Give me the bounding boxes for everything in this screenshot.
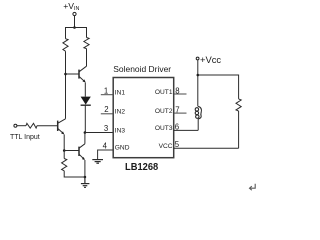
svg-text:Solenoid Driver: Solenoid Driver [113,65,171,74]
svg-text:IN: IN [74,6,79,12]
ground GND pin [92,160,103,164]
node IN3 junction [84,131,87,134]
node Q2 emitter junction [63,149,66,152]
terminal +Vcc [196,57,199,60]
wire to IN3 pin [85,132,113,134]
svg-text:OUT3: OUT3 [155,125,173,132]
wire [74,16,76,28]
pin 7 OUT2 stub [174,112,187,114]
svg-text:IN3: IN3 [115,127,126,134]
pin 5 VCC wire [174,147,239,149]
svg-text:OUT1: OUT1 [155,89,173,96]
svg-text:GND: GND [115,145,130,152]
svg-text:IN1: IN1 [115,89,126,96]
pin 4 GND wire [98,150,114,160]
IC box U1 LB1268 [113,78,174,158]
resistor R2 [84,38,89,49]
wire right branch [86,49,88,67]
svg-text:6: 6 [175,122,179,131]
node Q1 base junction [64,73,67,76]
wire Vcc rail [198,75,239,99]
svg-text:4: 4 [103,141,108,150]
node Q3 emitter junction [84,176,87,179]
transistor Q3 [79,133,85,178]
node return glyph [250,184,256,190]
resistor R1 [63,39,68,52]
svg-text:5: 5 [175,140,180,149]
ground [81,177,90,187]
svg-text:+V: +V [63,1,74,11]
pin 2 IN2 [101,113,113,115]
wire [17,125,26,127]
wire [197,60,199,107]
pin 6 OUT3 wire [174,129,198,131]
node junction top rail [73,26,76,29]
svg-text:8: 8 [175,86,179,95]
wire left branch [65,51,67,119]
svg-text:VCC: VCC [159,143,173,150]
node Vcc junction [197,74,200,77]
svg-text:7: 7 [175,106,179,115]
svg-text:2: 2 [104,105,108,114]
pin 1 IN1 [101,94,113,96]
svg-text:IN2: IN2 [115,109,126,116]
resistor R5 [236,99,241,111]
transistor Q2 [58,119,66,151]
wire to Q2 base [37,125,58,127]
inductor L1 solenoid coil [195,106,201,130]
wire Q3 base [64,150,79,152]
svg-text:OUT2: OUT2 [155,108,173,115]
pin 8 OUT1 stub [174,93,187,95]
resistor R3 [26,123,37,128]
IC texts [10,65,180,173]
node +VIN label [63,1,79,12]
wire [238,111,240,148]
svg-text:1: 1 [104,87,108,96]
svg-text:3: 3 [104,124,108,133]
transistor Q1 [79,66,87,96]
diode D1 [81,97,91,133]
svg-text:TTL Input: TTL Input [10,134,40,141]
resistor R4 [62,151,85,178]
svg-text:+Vcc: +Vcc [200,54,221,65]
wire top rail [66,28,87,39]
terminal +VIN [73,12,76,15]
svg-text:LB1268: LB1268 [125,162,159,173]
wire Q1 base [66,73,80,75]
terminal TTL input [14,124,17,127]
